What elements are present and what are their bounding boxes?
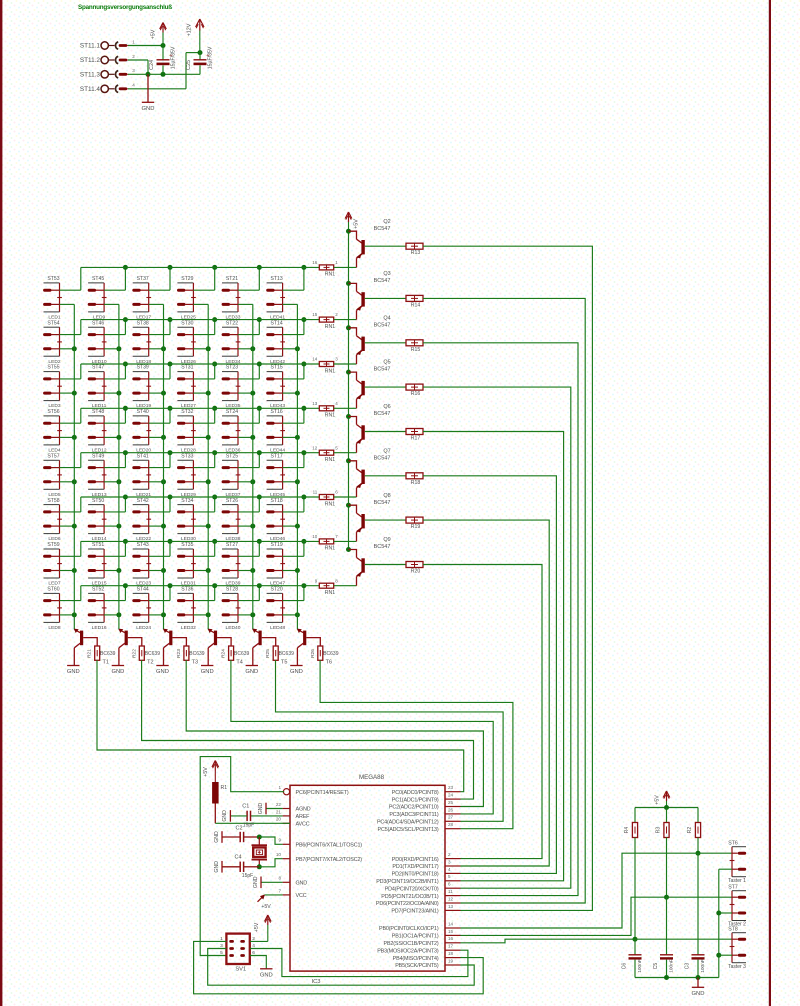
svg-text:15µF/35V: 15µF/35V xyxy=(171,46,177,69)
svg-text:AVCC: AVCC xyxy=(296,822,310,828)
svg-text:PB5(SCK/PCINT5): PB5(SCK/PCINT5) xyxy=(395,963,439,969)
svg-text:ST31: ST31 xyxy=(181,365,193,371)
svg-text:9: 9 xyxy=(315,578,318,583)
svg-text:PB4(MISO/PCINT4): PB4(MISO/PCINT4) xyxy=(393,956,439,962)
svg-text:BC547: BC547 xyxy=(374,500,391,506)
svg-text:AREF: AREF xyxy=(296,814,311,820)
svg-text:R1: R1 xyxy=(221,785,228,791)
svg-text:ST49: ST49 xyxy=(92,453,104,459)
svg-text:LED8: LED8 xyxy=(48,625,61,631)
svg-text:ST44: ST44 xyxy=(137,586,149,592)
svg-text:Q2: Q2 xyxy=(383,219,390,225)
svg-text:+5V: +5V xyxy=(261,904,271,910)
svg-text:ST35: ST35 xyxy=(181,542,193,548)
svg-text:6: 6 xyxy=(448,882,451,887)
svg-text:RN1: RN1 xyxy=(325,546,335,552)
svg-text:Q8: Q8 xyxy=(383,493,390,499)
svg-text:3: 3 xyxy=(132,68,135,73)
svg-text:8: 8 xyxy=(335,578,338,583)
svg-text:GND: GND xyxy=(253,876,259,888)
svg-text:5: 5 xyxy=(335,445,338,450)
svg-text:27: 27 xyxy=(448,815,454,820)
svg-text:2: 2 xyxy=(335,312,338,317)
svg-text:ST36: ST36 xyxy=(181,586,193,592)
svg-text:PC3(ADC3/PCINT11): PC3(ADC3/PCINT11) xyxy=(389,812,439,818)
svg-text:T2: T2 xyxy=(147,659,153,665)
svg-text:PB3(MOSI/OC2A/PCINT3): PB3(MOSI/OC2A/PCINT3) xyxy=(377,948,439,954)
svg-text:ST52: ST52 xyxy=(92,586,104,592)
svg-text:GND: GND xyxy=(214,831,220,843)
svg-text:LED16: LED16 xyxy=(92,625,107,631)
svg-text:Spannungsversorgungsanschluß: Spannungsversorgungsanschluß xyxy=(78,4,172,11)
svg-text:+12V: +12V xyxy=(187,23,193,36)
svg-text:PB1(OC1A/PCINT1): PB1(OC1A/PCINT1) xyxy=(392,934,439,940)
svg-text:1: 1 xyxy=(132,39,135,44)
svg-text:ST47: ST47 xyxy=(92,365,104,371)
svg-text:ST21: ST21 xyxy=(226,276,238,282)
svg-text:PB6(PCINT6/XTAL1/TOSC1): PB6(PCINT6/XTAL1/TOSC1) xyxy=(296,843,363,849)
svg-text:ST53: ST53 xyxy=(47,276,59,282)
svg-text:R24: R24 xyxy=(221,649,227,658)
svg-text:PC1(ADC1/PCINT9): PC1(ADC1/PCINT9) xyxy=(392,797,439,803)
svg-text:1: 1 xyxy=(278,785,281,790)
svg-text:GND: GND xyxy=(67,669,80,675)
svg-text:GND: GND xyxy=(156,669,169,675)
svg-text:15µF/35V: 15µF/35V xyxy=(208,46,214,69)
svg-text:IC3: IC3 xyxy=(311,979,320,985)
svg-text:ST8: ST8 xyxy=(728,927,738,933)
svg-text:ST32: ST32 xyxy=(181,409,193,415)
svg-text:ST34: ST34 xyxy=(181,498,193,504)
svg-text:BC639: BC639 xyxy=(279,651,295,657)
svg-text:15pF: 15pF xyxy=(242,873,253,879)
svg-text:R19: R19 xyxy=(411,524,421,530)
svg-text:ST6: ST6 xyxy=(728,841,738,847)
svg-text:ST27: ST27 xyxy=(226,542,238,548)
svg-text:ST22: ST22 xyxy=(226,320,238,326)
svg-text:R15: R15 xyxy=(411,347,421,353)
svg-text:18: 18 xyxy=(448,951,454,956)
svg-text:R21: R21 xyxy=(87,649,93,658)
svg-text:ST40: ST40 xyxy=(137,409,149,415)
svg-text:PC4(ADC4/SDA/PCINT12): PC4(ADC4/SDA/PCINT12) xyxy=(377,820,439,826)
svg-text:Q5: Q5 xyxy=(383,360,390,366)
svg-text:7: 7 xyxy=(335,534,338,539)
svg-text:ST16: ST16 xyxy=(271,409,283,415)
svg-text:MEGA88: MEGA88 xyxy=(359,774,385,781)
svg-text:ST38: ST38 xyxy=(137,320,149,326)
svg-text:4: 4 xyxy=(132,83,135,88)
svg-text:13: 13 xyxy=(312,401,318,406)
svg-text:+5V: +5V xyxy=(151,29,157,39)
svg-text:PB7(PCINT7/XTAL2/TOSC2): PB7(PCINT7/XTAL2/TOSC2) xyxy=(296,857,363,863)
svg-text:BC547: BC547 xyxy=(374,455,391,461)
svg-text:Q6: Q6 xyxy=(383,404,390,410)
svg-text:4: 4 xyxy=(448,867,451,872)
svg-text:+5V: +5V xyxy=(254,922,260,932)
svg-text:C5: C5 xyxy=(653,963,659,970)
svg-text:Q7: Q7 xyxy=(383,448,390,454)
svg-text:PD2(INT0/PCINT18): PD2(INT0/PCINT18) xyxy=(392,872,439,878)
svg-text:ST15: ST15 xyxy=(271,365,283,371)
svg-text:11: 11 xyxy=(448,889,453,894)
svg-text:BC639: BC639 xyxy=(323,651,339,657)
svg-text:T1: T1 xyxy=(103,659,109,665)
svg-text:GND: GND xyxy=(692,991,705,997)
svg-text:10: 10 xyxy=(312,534,318,539)
svg-text:GND: GND xyxy=(245,669,258,675)
svg-text:100nF: 100nF xyxy=(700,959,706,973)
svg-text:25: 25 xyxy=(448,800,454,805)
svg-text:2: 2 xyxy=(448,852,451,857)
svg-text:ST29: ST29 xyxy=(181,276,193,282)
svg-text:16: 16 xyxy=(312,260,318,265)
svg-text:12: 12 xyxy=(312,445,318,450)
svg-text:ST50: ST50 xyxy=(92,498,104,504)
svg-text:ST26: ST26 xyxy=(226,498,238,504)
svg-text:15pF: 15pF xyxy=(243,823,254,829)
svg-text:R13: R13 xyxy=(411,250,421,256)
svg-text:ST56: ST56 xyxy=(47,409,59,415)
svg-text:ST57: ST57 xyxy=(47,453,59,459)
svg-text:15: 15 xyxy=(312,312,318,317)
svg-text:ST11.3: ST11.3 xyxy=(80,72,101,79)
svg-text:C3: C3 xyxy=(685,963,691,970)
svg-text:15: 15 xyxy=(448,929,454,934)
svg-text:R4: R4 xyxy=(624,827,630,834)
svg-text:3: 3 xyxy=(448,859,451,864)
svg-text:C24: C24 xyxy=(149,60,155,70)
svg-text:PC5(ADC5/SCL/PCINT13): PC5(ADC5/SCL/PCINT13) xyxy=(378,827,439,833)
svg-text:R2: R2 xyxy=(687,827,693,834)
svg-text:26: 26 xyxy=(448,807,454,812)
svg-text:BC547: BC547 xyxy=(374,278,391,284)
svg-text:RN1: RN1 xyxy=(325,590,335,596)
svg-text:ST28: ST28 xyxy=(226,586,238,592)
svg-text:R26: R26 xyxy=(310,649,316,658)
svg-text:LED48: LED48 xyxy=(270,625,285,631)
svg-text:PD6(PCINT22/OC0A/AIN0): PD6(PCINT22/OC0A/AIN0) xyxy=(376,901,439,907)
svg-text:PC6(PCINT14/RESET): PC6(PCINT14/RESET) xyxy=(296,790,349,796)
svg-text:100nF: 100nF xyxy=(669,959,675,973)
svg-text:R20: R20 xyxy=(411,569,421,575)
svg-text:PB0(PCINT0/CLKO/ICP1): PB0(PCINT0/CLKO/ICP1) xyxy=(379,926,439,932)
svg-text:ST11.4: ST11.4 xyxy=(80,86,101,93)
svg-text:23: 23 xyxy=(448,785,454,790)
svg-text:T4: T4 xyxy=(236,659,242,665)
svg-text:GND: GND xyxy=(296,881,308,887)
svg-text:ST30: ST30 xyxy=(181,320,193,326)
svg-text:C25: C25 xyxy=(186,60,192,70)
svg-text:16: 16 xyxy=(448,936,454,941)
svg-text:GND: GND xyxy=(222,810,228,822)
svg-text:R14: R14 xyxy=(411,302,421,308)
svg-text:C2: C2 xyxy=(235,826,242,832)
svg-text:BC639: BC639 xyxy=(100,651,116,657)
svg-text:C4: C4 xyxy=(234,855,241,861)
svg-text:C6: C6 xyxy=(622,963,628,970)
svg-text:21: 21 xyxy=(276,809,282,814)
svg-text:ST37: ST37 xyxy=(137,276,149,282)
svg-text:RN1: RN1 xyxy=(325,457,335,463)
svg-text:ST58: ST58 xyxy=(47,498,59,504)
svg-text:SV1: SV1 xyxy=(235,967,246,973)
svg-text:PD4(PCINT20/XCK/T0): PD4(PCINT20/XCK/T0) xyxy=(385,886,439,892)
svg-text:14: 14 xyxy=(448,921,454,926)
svg-text:8: 8 xyxy=(278,876,281,881)
svg-text:Taster 1: Taster 1 xyxy=(728,878,746,884)
svg-text:ST18: ST18 xyxy=(271,498,283,504)
svg-text:PD7(PCINT23/AIN1): PD7(PCINT23/AIN1) xyxy=(391,909,439,915)
svg-text:9: 9 xyxy=(278,838,281,843)
svg-text:ST59: ST59 xyxy=(47,542,59,548)
svg-text:5: 5 xyxy=(448,874,451,879)
svg-text:19: 19 xyxy=(448,958,454,963)
svg-text:17: 17 xyxy=(448,944,454,949)
svg-text:BC547: BC547 xyxy=(374,367,391,373)
svg-text:LED40: LED40 xyxy=(226,625,241,631)
svg-text:T5: T5 xyxy=(281,659,287,665)
svg-text:RN1: RN1 xyxy=(325,272,335,278)
svg-text:ST14: ST14 xyxy=(271,320,283,326)
svg-text:PC0(ADC0/PCINT8): PC0(ADC0/PCINT8) xyxy=(392,790,439,796)
svg-text:ST54: ST54 xyxy=(47,320,59,326)
svg-text:GND: GND xyxy=(260,972,273,978)
svg-text:ST7: ST7 xyxy=(728,885,738,891)
svg-text:22: 22 xyxy=(276,802,282,807)
svg-text:ST11.2: ST11.2 xyxy=(80,57,101,64)
svg-text:ST41: ST41 xyxy=(137,453,149,459)
svg-text:Taster 3: Taster 3 xyxy=(728,964,746,970)
svg-text:ST60: ST60 xyxy=(47,586,59,592)
svg-text:ST42: ST42 xyxy=(137,498,149,504)
svg-text:R16: R16 xyxy=(411,391,421,397)
svg-text:RN1: RN1 xyxy=(325,413,335,419)
svg-text:PD1(TXD/PCINT17): PD1(TXD/PCINT17) xyxy=(392,864,438,870)
svg-text:ST43: ST43 xyxy=(137,542,149,548)
svg-text:ST19: ST19 xyxy=(271,542,283,548)
svg-text:6: 6 xyxy=(335,490,338,495)
svg-text:12: 12 xyxy=(448,896,454,901)
svg-text:PB2(SS/OC1B/PCINT2): PB2(SS/OC1B/PCINT2) xyxy=(384,941,439,947)
svg-text:R22: R22 xyxy=(131,649,137,658)
svg-text:100nF: 100nF xyxy=(637,959,643,973)
svg-text:R3: R3 xyxy=(656,827,662,834)
svg-text:ST48: ST48 xyxy=(92,409,104,415)
svg-text:R17: R17 xyxy=(411,436,421,442)
svg-text:4: 4 xyxy=(335,401,338,406)
svg-text:11: 11 xyxy=(313,490,318,495)
svg-text:R18: R18 xyxy=(411,480,421,486)
svg-text:RN1: RN1 xyxy=(325,368,335,374)
svg-text:ST17: ST17 xyxy=(271,453,283,459)
svg-text:Q3: Q3 xyxy=(383,271,390,277)
svg-text:ST55: ST55 xyxy=(47,365,59,371)
svg-text:ST45: ST45 xyxy=(92,276,104,282)
svg-text:ST46: ST46 xyxy=(92,320,104,326)
svg-text:PD3(PCINT19/OC2B/INT1): PD3(PCINT19/OC2B/INT1) xyxy=(376,879,439,885)
svg-text:BC547: BC547 xyxy=(374,322,391,328)
svg-text:BC639: BC639 xyxy=(234,651,250,657)
svg-text:GND: GND xyxy=(214,861,220,873)
svg-text:ST13: ST13 xyxy=(271,276,283,282)
svg-text:3: 3 xyxy=(335,357,338,362)
svg-text:PC2(ADC2/PCINT10): PC2(ADC2/PCINT10) xyxy=(389,805,439,811)
svg-text:ST24: ST24 xyxy=(226,409,238,415)
svg-text:BC547: BC547 xyxy=(374,411,391,417)
svg-text:LED32: LED32 xyxy=(181,625,196,631)
svg-text:ST11.1: ST11.1 xyxy=(80,43,101,50)
svg-text:7: 7 xyxy=(278,888,281,893)
svg-text:BC547: BC547 xyxy=(374,226,391,232)
svg-text:C1: C1 xyxy=(242,804,249,810)
svg-text:AGND: AGND xyxy=(296,807,311,813)
svg-text:R25: R25 xyxy=(265,649,271,658)
svg-text:VCC: VCC xyxy=(296,893,307,899)
svg-text:1: 1 xyxy=(335,260,338,265)
svg-text:+5V: +5V xyxy=(354,219,360,229)
svg-text:+5V: +5V xyxy=(655,795,661,805)
svg-text:ST23: ST23 xyxy=(226,365,238,371)
svg-text:PD5(PCINT21/OC0B/T1): PD5(PCINT21/OC0B/T1) xyxy=(381,894,439,900)
svg-text:ST20: ST20 xyxy=(271,586,283,592)
svg-text:ST39: ST39 xyxy=(137,365,149,371)
svg-text:PD0(RXD/PCINT16): PD0(RXD/PCINT16) xyxy=(392,857,439,863)
svg-text:5: 5 xyxy=(220,950,223,956)
svg-text:2: 2 xyxy=(132,54,135,59)
svg-text:GND: GND xyxy=(111,669,124,675)
svg-text:T3: T3 xyxy=(192,659,198,665)
svg-text:BC639: BC639 xyxy=(189,651,205,657)
svg-text:24: 24 xyxy=(448,793,454,798)
svg-text:10: 10 xyxy=(276,852,282,857)
svg-text:13: 13 xyxy=(448,904,454,909)
svg-text:BC547: BC547 xyxy=(374,544,391,550)
svg-text:T6: T6 xyxy=(326,659,332,665)
svg-text:Q9: Q9 xyxy=(383,537,390,543)
svg-text:LED24: LED24 xyxy=(136,625,151,631)
svg-text:GND: GND xyxy=(142,106,155,112)
svg-text:28: 28 xyxy=(448,822,454,827)
svg-text:ST25: ST25 xyxy=(226,453,238,459)
svg-text:BC639: BC639 xyxy=(145,651,161,657)
svg-text:20: 20 xyxy=(276,817,282,822)
svg-text:ST33: ST33 xyxy=(181,453,193,459)
svg-text:Q4: Q4 xyxy=(383,315,390,321)
svg-text:GND: GND xyxy=(290,669,303,675)
svg-text:GND: GND xyxy=(201,669,214,675)
svg-text:+5V: +5V xyxy=(203,767,209,777)
svg-text:R23: R23 xyxy=(176,649,182,658)
svg-text:RN1: RN1 xyxy=(325,324,335,330)
svg-text:ST51: ST51 xyxy=(92,542,104,548)
svg-text:RN1: RN1 xyxy=(325,501,335,507)
svg-text:14: 14 xyxy=(312,357,318,362)
svg-text:GND: GND xyxy=(258,802,264,814)
